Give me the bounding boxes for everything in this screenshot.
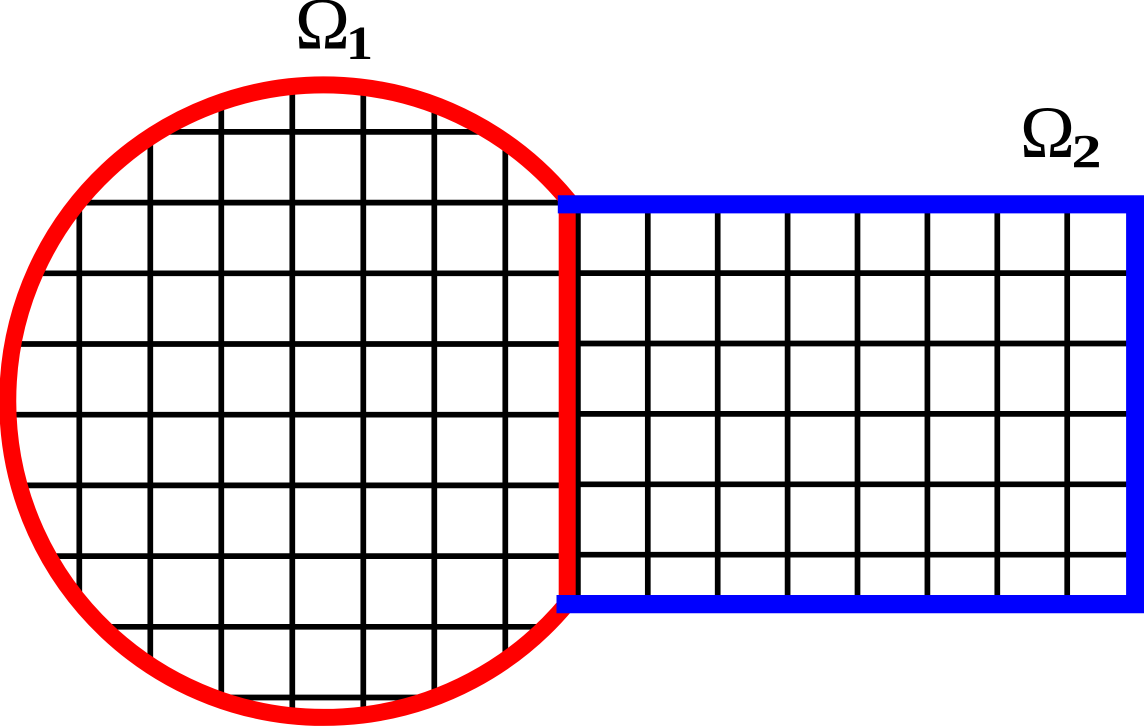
wire: rect-mesh horizontal lines [567,273,1136,555]
svg-text:Ω2: Ω2 [1020,92,1102,179]
mesh grid of domain Omega1 (circle), clipped to disk [0,0,580,726]
svg-text:Ω1: Ω1 [295,0,373,70]
boundary of Omega1: red circle arc + interface chord [8,85,567,718]
boundary of Omega2: blue top/right/bottom edges [557,204,1136,604]
wire: rect-mesh vertical lines [578,204,1067,605]
wire: circle-mesh horizontal lines [0,132,580,698]
mesh grid of domain Omega2 (rectangle), clipped to rect [567,204,1136,605]
wire: circle-mesh vertical lines [8,0,505,726]
